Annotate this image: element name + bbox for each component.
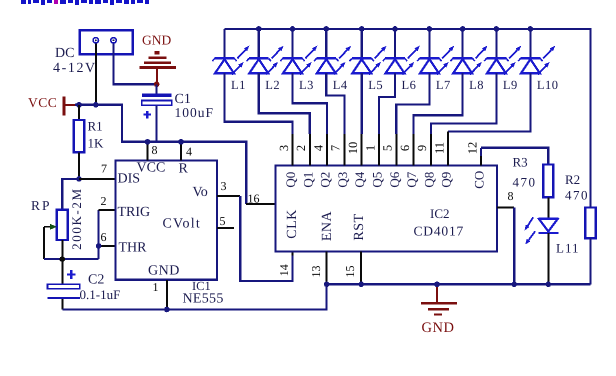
svg-text:L2: L2 [265, 78, 280, 92]
label + [0, 0, 1, 1]
node VCC/DC junction [93, 102, 99, 108]
pin number 7 [101, 162, 107, 176]
svg-text:100uF: 100uF [175, 105, 215, 120]
svg-text:4: 4 [186, 145, 192, 159]
label L2 [265, 78, 280, 92]
label L6 [402, 78, 417, 92]
pin number 8 [152, 143, 158, 157]
wire L7 to Q6 pin 5 [396, 73, 429, 165]
resistor R2 470 [585, 208, 595, 239]
label THR [119, 241, 148, 256]
label 13 [309, 266, 323, 278]
svg-text:L7: L7 [436, 78, 451, 92]
label L4 [333, 78, 348, 92]
label R3 [513, 155, 528, 170]
label VCC [28, 95, 57, 110]
label Q4 [352, 171, 367, 187]
label Q7 [404, 171, 419, 187]
label GND (power input) [142, 33, 171, 48]
svg-text:Q2: Q2 [318, 172, 333, 188]
svg-text:GND: GND [148, 264, 180, 279]
node ground tap [434, 282, 440, 288]
node L9 rail junction [494, 26, 500, 32]
node THR junction [96, 243, 102, 249]
svg-text:Q4: Q4 [352, 171, 367, 187]
svg-text:R2: R2 [565, 172, 580, 187]
label Q9 [439, 172, 454, 188]
LED L10 [518, 29, 555, 75]
LED L11 indicator [525, 217, 559, 244]
wire pin 16 stub to IC2 [246, 203, 275, 205]
label 14 [277, 264, 291, 276]
label L9 [503, 78, 518, 92]
pin number 8 (IC2) [508, 189, 514, 203]
svg-text:Vo: Vo [193, 185, 208, 200]
node R1/RP/DIS junction [76, 176, 82, 182]
svg-text:1: 1 [363, 145, 377, 151]
wire VCC rail to IC supply [75, 105, 246, 204]
LED L8 [450, 29, 487, 75]
label VCC (IC1 pin name) [137, 161, 166, 176]
svg-text:DC: DC [55, 46, 74, 61]
LED L9 [484, 29, 521, 75]
wire wiper/RP bottom node [44, 258, 99, 260]
op-amp timer IC1 NE555 body [116, 160, 218, 279]
node L10 rail junction [528, 26, 534, 32]
node RP bottom junction [60, 256, 66, 262]
svg-text:5: 5 [220, 214, 226, 228]
svg-text:200K-2M: 200K-2M [69, 187, 84, 249]
svg-text:8: 8 [152, 143, 158, 157]
label ENA [320, 210, 335, 241]
svg-text:L4: L4 [333, 78, 348, 92]
svg-text:CVolt: CVolt [163, 217, 201, 232]
svg-text:Q1: Q1 [300, 172, 315, 188]
label L10 [537, 78, 559, 92]
svg-text:NE555: NE555 [183, 292, 224, 307]
label Q3 [335, 172, 350, 188]
svg-text:Q3: Q3 [335, 172, 350, 188]
wire ground bus lower run [62, 284, 326, 309]
svg-text:7: 7 [101, 162, 107, 176]
pin number 1 [153, 280, 159, 294]
wire pin 4 R stub [178, 139, 184, 160]
LED L3 [280, 29, 317, 75]
pin number 1 [363, 145, 377, 151]
label Vo [193, 185, 208, 200]
label L8 [469, 78, 484, 92]
wire L6 to Q5 pin 1 [379, 73, 395, 165]
svg-text:L9: L9 [503, 78, 518, 92]
svg-text:6: 6 [101, 230, 107, 244]
svg-text:CO: CO [471, 171, 486, 189]
label L5 [368, 78, 383, 92]
svg-text:Q5: Q5 [369, 172, 384, 188]
wire pin 3 Vo to CLK pin 14 [217, 196, 292, 281]
wire LED supply rail [225, 29, 591, 208]
label Q1 [300, 172, 315, 188]
label GND (main) [422, 320, 455, 336]
wire pin 6 THR stub [99, 245, 116, 247]
label R2 [565, 172, 580, 187]
svg-text:Q8: Q8 [421, 172, 436, 188]
node L3 rail junction [290, 26, 296, 32]
label TRIG [118, 205, 151, 220]
VCC terminal symbol [63, 96, 66, 115]
label NE555 [183, 292, 224, 307]
svg-text:0.1-1uF: 0.1-1uF [80, 287, 121, 302]
wire L1 to Q0 pin 3 [225, 73, 293, 165]
label Q2 [318, 172, 333, 188]
svg-text:Q0: Q0 [283, 172, 298, 188]
pin number 2 [101, 194, 107, 208]
potentiometer RP 200K-2M [44, 210, 68, 259]
wire pin 15 RST to ground bus [360, 252, 362, 285]
label 100uF [175, 105, 215, 120]
node L11 bus junction [546, 282, 552, 288]
wire node to RP top [62, 179, 79, 210]
wire DC plus pin down to VCC rail [95, 44, 97, 105]
LED L2 [247, 29, 284, 75]
label CVolt [163, 217, 201, 232]
LED L7 [417, 29, 454, 75]
wire DC minus pin to ground node [114, 44, 156, 85]
counter IC2 CD4017 body [276, 166, 498, 252]
svg-text:L8: L8 [469, 78, 484, 92]
label L11 [556, 241, 579, 256]
node pin15 junction [358, 282, 364, 288]
svg-text:7: 7 [329, 145, 343, 151]
LED L5 [350, 29, 387, 75]
label DC 4-12V [53, 46, 97, 76]
label 470 (R3) [513, 175, 537, 190]
svg-text:CD4017: CD4017 [414, 224, 465, 239]
label Q5 [369, 172, 384, 188]
svg-text:R: R [179, 162, 189, 177]
label Q0 [283, 172, 298, 188]
wire CO pin 12 to R3 [481, 148, 548, 166]
svg-text:2: 2 [294, 145, 308, 151]
label L3 [299, 78, 314, 92]
svg-text:4-12V: 4-12V [53, 61, 97, 76]
clipped title text at top edge [21, 0, 149, 5]
svg-text:4: 4 [311, 144, 325, 151]
svg-text:VCC: VCC [137, 161, 166, 176]
wire pin 1 GND stub [166, 280, 168, 310]
svg-text:6: 6 [398, 145, 412, 151]
svg-text:14: 14 [277, 264, 291, 276]
node VCC/R1 junction [76, 102, 82, 108]
wire node to pin 7 DIS [79, 178, 116, 180]
pin number 9 [415, 145, 429, 151]
pin number 7 [329, 145, 343, 151]
pin number 4 [186, 145, 192, 159]
label 1K [88, 136, 105, 151]
ground symbol (main) [421, 284, 457, 315]
capacitor C2 0.1-1uF electrolytic [48, 259, 80, 309]
svg-text:THR: THR [119, 241, 148, 256]
label IC2 [430, 206, 450, 221]
wire L4 to Q3 pin 7 [326, 73, 344, 165]
label RP [31, 198, 52, 213]
label CO [471, 171, 486, 189]
svg-text:GND: GND [422, 320, 455, 336]
svg-text:8: 8 [508, 189, 514, 203]
svg-text:L1: L1 [231, 78, 246, 92]
svg-text:3: 3 [277, 145, 291, 151]
label R (IC1 pin name) [179, 162, 189, 177]
pin number 6 [101, 230, 107, 244]
svg-text:VCC: VCC [28, 95, 57, 110]
label Q8 [421, 172, 436, 188]
svg-text:RP: RP [31, 198, 52, 213]
svg-text:13: 13 [309, 266, 323, 278]
wire L9 to Q8 pin 9 [431, 73, 497, 165]
LED L6 [383, 29, 420, 75]
svg-text:2: 2 [101, 194, 107, 208]
label 470 (R2) [565, 188, 589, 203]
svg-text:RST: RST [352, 213, 367, 240]
svg-text:Q7: Q7 [404, 171, 419, 187]
label DIS [118, 172, 141, 187]
wire L2 to Q1 pin 2 [259, 73, 310, 165]
svg-text:R1: R1 [88, 119, 103, 134]
svg-text:470: 470 [513, 175, 537, 190]
LED L4 [314, 29, 351, 75]
node L4 rail junction [324, 26, 330, 32]
svg-text:L10: L10 [537, 78, 559, 92]
node pin13 junction [324, 282, 330, 288]
svg-text:R3: R3 [513, 155, 528, 170]
wire L11 cathode to bus [547, 233, 549, 284]
wire pin 8 VCC stub [145, 139, 151, 160]
wire L3 to Q2 pin 4 [293, 73, 328, 165]
wire TRIG-THR vertical [97, 210, 99, 259]
svg-text:10: 10 [346, 142, 360, 155]
svg-text:9: 9 [415, 145, 429, 151]
pin number 4 [311, 144, 325, 151]
node IC2 pin8 bus junction [511, 282, 517, 288]
label L1 [231, 78, 246, 92]
node L7 rail junction [427, 26, 433, 32]
wire pin 2 TRIG stub [99, 209, 116, 211]
wire VCC terminal to rail [66, 104, 76, 106]
LED L1 [212, 29, 249, 75]
pin number 16 label [248, 192, 260, 206]
svg-text:TRIG: TRIG [118, 205, 151, 220]
resistor R1 1K [74, 105, 85, 179]
wire ground bus upper run [327, 283, 591, 285]
svg-text:DIS: DIS [118, 172, 141, 187]
wire pin 5 CVolt stub [217, 227, 234, 229]
node L2 rail junction [256, 26, 262, 32]
label IC1 [192, 279, 211, 293]
svg-text:15: 15 [343, 266, 357, 278]
svg-text:GND: GND [142, 33, 171, 48]
wire R2 to ground bus [589, 238, 591, 284]
svg-text:IC2: IC2 [430, 206, 450, 221]
pin number 3 [277, 145, 291, 151]
pin number 5 [220, 214, 226, 228]
label 15 [343, 266, 357, 278]
wire IC2 pin 8 GND to bus [497, 207, 514, 284]
wire L5 to Q4 pin 10 [361, 73, 363, 165]
pin number 10 [346, 142, 360, 155]
svg-text:3: 3 [221, 179, 227, 193]
svg-text:12: 12 [465, 142, 479, 155]
label R1 [88, 119, 103, 134]
svg-text:ENA: ENA [320, 210, 335, 241]
wire L10 to Q9 pin 11 [448, 73, 530, 165]
node L6 rail junction [392, 26, 398, 32]
label 200K-2M [69, 187, 84, 249]
pin number 11 [433, 142, 447, 154]
pin number 5 [381, 145, 395, 151]
svg-text:470: 470 [565, 188, 589, 203]
label GND (IC1 pin name) [148, 264, 180, 279]
ground symbol (power input, inverted) [140, 51, 177, 69]
pin number 2 [294, 145, 308, 151]
resistor R3 470 [543, 165, 553, 219]
node L5 rail junction [359, 26, 365, 32]
svg-text:L6: L6 [402, 78, 417, 92]
svg-text:Q6: Q6 [387, 171, 402, 187]
label 0.1-1uF [80, 287, 121, 302]
svg-text:L5: L5 [368, 78, 383, 92]
wire pin 13 ENA to ground bus [326, 252, 328, 285]
label C1 [175, 92, 191, 107]
svg-text:L3: L3 [299, 78, 314, 92]
node pin1 bus junction [164, 307, 170, 313]
label CLK [285, 209, 300, 239]
node L8 rail junction [460, 26, 466, 32]
pin number 6 [398, 145, 412, 151]
capacitor C1 100uF electrolytic [142, 84, 172, 142]
svg-text:Q9: Q9 [439, 172, 454, 188]
svg-text:1: 1 [153, 280, 159, 294]
pin number 12 [465, 142, 479, 155]
wire L8 to Q7 pin 6 [414, 73, 463, 165]
svg-text:C2: C2 [88, 273, 104, 288]
label RST [352, 213, 367, 240]
wire GND stem to node [156, 69, 158, 86]
svg-text:5: 5 [381, 145, 395, 151]
label Q6 [387, 171, 402, 187]
pin number 3 [221, 179, 227, 193]
label C2 [88, 273, 104, 288]
svg-text:L11: L11 [556, 241, 579, 256]
svg-text:11: 11 [433, 142, 447, 154]
svg-text:CLK: CLK [285, 209, 300, 239]
svg-text:1K: 1K [88, 136, 105, 151]
label CD4017 [414, 224, 465, 239]
connector J1 DC power input [80, 30, 133, 54]
node DC minus / C1 / GND junction [154, 82, 160, 88]
label L7 [436, 78, 451, 92]
